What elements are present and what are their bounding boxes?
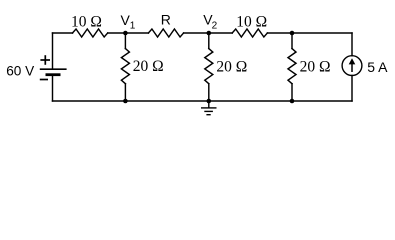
wire current source bottom lead <box>351 76 353 102</box>
svg-text:20 Ω: 20 Ω <box>300 59 331 76</box>
svg-text:20 Ω: 20 Ω <box>133 58 164 75</box>
wire node3 upper lead <box>291 33 293 49</box>
wire node3 lower lead <box>291 84 293 101</box>
wire node V1 lower lead <box>124 84 126 101</box>
wire between R and 10ohm right <box>184 32 233 34</box>
svg-text:20 Ω: 20 Ω <box>216 58 247 75</box>
node V1 dot bottom <box>123 99 128 104</box>
battery plus sign <box>40 55 50 65</box>
wire top right segment <box>267 32 352 34</box>
resistor 20ohm branch3 zigzag <box>288 49 296 84</box>
wire node V2 upper lead <box>208 33 210 49</box>
wire between 10ohm and R <box>108 32 149 34</box>
wire top left segment <box>53 32 73 34</box>
resistor R zigzag <box>148 29 183 37</box>
wire current source top lead <box>351 33 353 56</box>
wire battery bottom lead <box>52 75 54 101</box>
resistor 10ohm left zigzag <box>73 29 108 37</box>
resistor 20ohm branch1 zigzag <box>121 49 129 84</box>
node V2 dot bottom <box>207 99 212 104</box>
current source I1 circle <box>342 56 362 76</box>
node3 dot bottom <box>290 99 295 104</box>
svg-text:2: 2 <box>212 21 218 32</box>
svg-text:10 Ω: 10 Ω <box>71 14 102 31</box>
svg-text:R: R <box>161 12 171 28</box>
wire node V2 lower lead <box>208 84 210 101</box>
resistor 10ohm right zigzag <box>232 29 267 37</box>
wire bottom rail <box>53 100 353 102</box>
svg-text:10 Ω: 10 Ω <box>236 14 267 31</box>
battery V1 source plates <box>40 69 67 75</box>
svg-text:60 V: 60 V <box>6 64 34 79</box>
svg-text:5 A: 5 A <box>367 59 388 75</box>
ground <box>201 101 217 115</box>
resistor 20ohm branch2 zigzag <box>205 49 213 84</box>
battery minus sign <box>40 79 48 81</box>
node V1 dot top <box>123 31 128 36</box>
wire node V1 upper lead <box>124 33 126 49</box>
node3 dot top <box>290 31 295 36</box>
node V2 dot top <box>207 31 212 36</box>
wire battery top lead <box>52 33 54 69</box>
svg-text:1: 1 <box>130 21 136 32</box>
current source arrow <box>349 58 356 72</box>
